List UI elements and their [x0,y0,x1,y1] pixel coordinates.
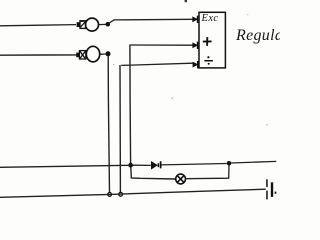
slip ring / gauge circle G2 [86,46,99,62]
diode CR1 [151,161,162,170]
wire node D4 to right (battery positive lead) [231,161,276,163]
node D4 (junction dot) [227,161,232,166]
brush/connector symbol at slip-ring G2 [76,51,86,59]
svg-text:Exc: Exc [201,13,219,24]
vertical wire V2 (plus feed) down to node D3 [129,45,132,164]
terminal T1 (Exc plug) [192,16,198,23]
wire node D3 to diode anode [133,164,151,166]
faint scan specks [172,98,174,99]
minus (÷) terminal label [204,56,213,65]
node D2 (junction dot) [106,51,111,56]
wire W3 from plus terminal to corner [130,44,192,46]
junction ring J1 on bottom bus [108,193,112,197]
main bus wire W7 (left to diode) [0,165,128,167]
wire circle G1 to node [99,23,106,25]
node D1 (junction dot) [106,22,111,27]
regulator box U1 [199,12,225,68]
wire W5 lamp to riser and node D4 [186,165,229,179]
stray ink speck [185,0,187,2]
wire diode cathode to node D4 [161,164,226,165]
bottom bus wire W8 to battery [0,189,266,197]
wire W6 from minus terminal to corner [121,63,193,65]
wire W2 left feed to brush 2 [0,54,76,56]
wire node D1 to Exc terminal [109,19,193,23]
brush/connector symbol at slip-ring G1 [77,21,86,29]
junction ring J2 on bottom bus [119,192,123,196]
wire from node D3 down and right to lamp [131,167,176,179]
slip ring / gauge circle G1 [86,18,99,31]
battery BT1 [266,179,276,199]
charge indicator lamp L1 [176,174,186,184]
terminal T2 (plus plug) [192,42,198,49]
plus terminal label [203,37,212,46]
svg-text:Regula: Regula [235,27,280,44]
vertical wire V1 from node D2 down to bottom bus [108,56,109,193]
terminal T3 (minus plug) [193,61,199,68]
wire circle G2 to node [100,53,106,55]
vertical wire V3 (minus feed) down to bottom bus [119,65,122,192]
wire W1 left feed to brush 1 [0,25,76,26]
node D3 (junction dot on main bus) [128,163,133,168]
